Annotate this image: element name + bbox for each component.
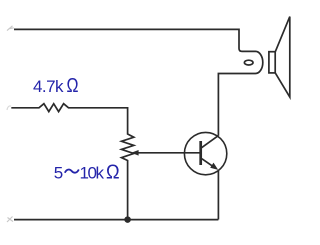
svg-text:4.7k: 4.7k [33, 77, 64, 96]
svg-text:5: 5 [54, 163, 63, 182]
svg-text:Ω: Ω [67, 75, 79, 97]
svg-text:Ω: Ω [106, 161, 120, 183]
svg-text:10k: 10k [80, 163, 105, 182]
